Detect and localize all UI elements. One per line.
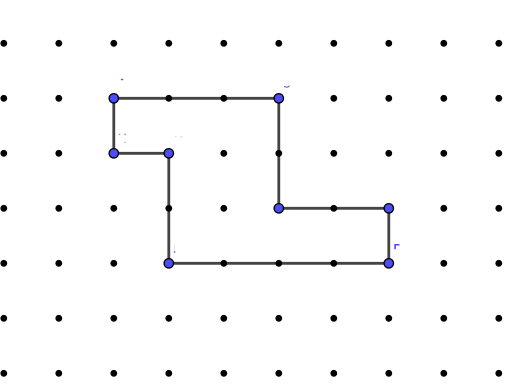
vertex point A — [109, 94, 118, 103]
label remnants near E — [175, 136, 177, 137]
vertex point E — [164, 149, 173, 158]
vertex point G — [384, 259, 393, 268]
label remnants near D — [119, 134, 121, 135]
vertex point B — [274, 94, 283, 103]
vertex point H — [164, 259, 173, 268]
vertex point C — [274, 204, 283, 213]
vertex point F — [384, 204, 393, 213]
label remnant near F — [394, 244, 399, 249]
label remnant near B — [284, 85, 290, 87]
label remnant near A — [121, 79, 123, 80]
polygon outline (wires A-B-C-F-G-H-E-D) — [114, 98, 389, 263]
label remnant near H — [174, 245, 175, 251]
vertex point D — [109, 149, 118, 158]
